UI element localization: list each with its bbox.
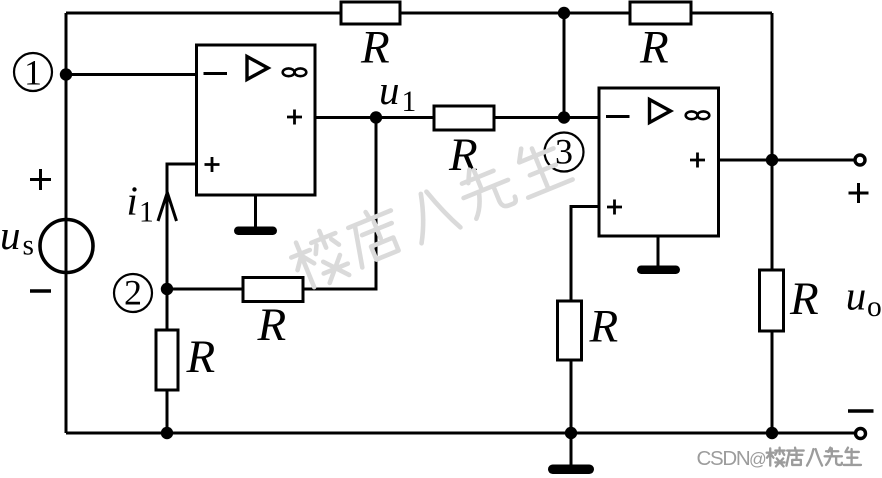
op-amp U1 noninverting plus bbox=[205, 157, 220, 172]
op-amp U2 body bbox=[599, 88, 719, 236]
output plus sign bbox=[849, 183, 869, 203]
ground under op2 bbox=[637, 266, 680, 275]
svg-text:R: R bbox=[186, 331, 216, 383]
op-amp U1 inverting input minus bbox=[204, 72, 228, 75]
svg-text:u: u bbox=[846, 273, 867, 319]
wire bottom rail bbox=[66, 432, 854, 435]
resistor R top-right feedback bbox=[630, 2, 691, 24]
resistor R node2 to ground vertical bbox=[156, 330, 178, 390]
wire node2 down to bottom rail bbox=[166, 289, 169, 433]
svg-text:R: R bbox=[589, 301, 619, 353]
op-amp U2 inverting input minus bbox=[606, 115, 630, 118]
junction dot output node bbox=[766, 154, 778, 166]
wire left rail bbox=[65, 13, 68, 433]
svg-text:R: R bbox=[639, 22, 669, 74]
op-amp U2 triangle bbox=[650, 100, 671, 123]
node junction dot 2 bbox=[161, 283, 173, 295]
wire op2 noninverting input down to grounded resistor bbox=[571, 207, 599, 434]
junction dot top rail bbox=[558, 7, 570, 19]
wire ground stem op1 bbox=[254, 195, 257, 228]
ground bottom center bbox=[548, 465, 594, 475]
svg-text:1: 1 bbox=[24, 53, 42, 93]
svg-text:R: R bbox=[257, 299, 287, 351]
node junction dot u1 bbox=[370, 111, 382, 123]
node junction dot 1 bbox=[60, 68, 72, 80]
svg-text:CSDN: CSDN bbox=[697, 447, 750, 470]
svg-text:R: R bbox=[360, 22, 390, 74]
op-amp U1 output plus bbox=[287, 110, 302, 125]
svg-text:s: s bbox=[23, 230, 34, 262]
op-amp U1 infinity bbox=[283, 68, 307, 76]
op-amp U1 triangle bbox=[247, 57, 268, 80]
wire ground stem bottom bbox=[570, 433, 573, 465]
node circle 2 bbox=[114, 273, 152, 313]
voltage source plus sign bbox=[30, 169, 51, 190]
junction dot bottom center bbox=[565, 427, 577, 439]
svg-text:@: @ bbox=[749, 449, 767, 469]
resistor R top-left feedback bbox=[341, 2, 400, 24]
voltage source minus sign bbox=[30, 289, 51, 292]
wire right rail bbox=[771, 13, 774, 433]
output minus sign bbox=[848, 409, 874, 412]
wire ground stem op2 bbox=[657, 236, 660, 267]
node circle 3 bbox=[545, 132, 584, 172]
junction dot bottom left bbox=[161, 427, 173, 439]
node junction dot 3 bbox=[558, 111, 570, 123]
resistor R between u1 and node3 bbox=[434, 106, 494, 130]
wire top rail bbox=[66, 12, 772, 15]
node circle 1 bbox=[14, 53, 52, 93]
op-amp U2 output plus bbox=[690, 153, 705, 168]
svg-text:o: o bbox=[867, 291, 882, 323]
wire node2 to feedback resistor and up to u1 bbox=[167, 118, 376, 290]
wire top junction down to node3 bbox=[563, 13, 566, 118]
wire op2 output to output terminal bbox=[719, 159, 855, 162]
wire node1 to op1 inverting input bbox=[66, 73, 197, 76]
svg-text:i: i bbox=[127, 178, 138, 224]
svg-text:u: u bbox=[0, 212, 21, 258]
svg-text:u: u bbox=[379, 67, 400, 113]
terminal output top bbox=[855, 155, 865, 165]
svg-text:R: R bbox=[789, 273, 819, 325]
terminal output bottom bbox=[856, 429, 866, 439]
op-amp U1 body bbox=[197, 45, 316, 195]
voltage source us circle bbox=[40, 220, 93, 273]
ground under op1 bbox=[234, 227, 277, 236]
op-amp U2 noninverting plus bbox=[607, 200, 622, 215]
resistor R op2 noninverting to ground bbox=[558, 301, 582, 360]
junction dot bottom right bbox=[766, 427, 778, 439]
svg-text:1: 1 bbox=[139, 196, 154, 228]
op-amp U2 infinity bbox=[686, 111, 710, 119]
wire op1 output to op2 inverting input bbox=[315, 116, 599, 119]
current arrow i1 bbox=[158, 193, 177, 222]
svg-text:2: 2 bbox=[124, 273, 142, 313]
resistor R output load bbox=[760, 270, 784, 331]
watermark diagonal bbox=[286, 135, 574, 293]
resistor R node2 feedback horizontal bbox=[243, 278, 303, 302]
svg-text:1: 1 bbox=[402, 86, 417, 118]
wire op1 noninverting input down to node2 bbox=[167, 164, 197, 289]
